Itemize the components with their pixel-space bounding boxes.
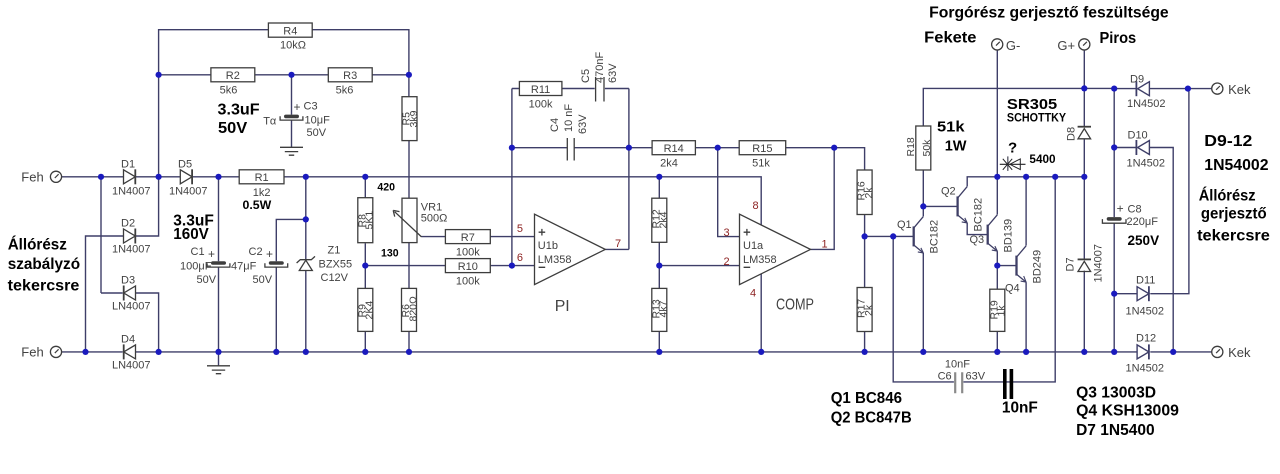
svg-text:Fekete: Fekete (924, 30, 976, 47)
wire R14 to pin3 (718, 148, 740, 237)
svg-text:Feh: Feh (21, 170, 43, 185)
svg-text:420: 420 (377, 182, 395, 194)
svg-text:SR305: SR305 (1007, 96, 1057, 113)
node R8 top (362, 174, 368, 180)
svg-text:1k: 1k (996, 305, 1008, 317)
svg-text:2k4: 2k4 (660, 158, 678, 170)
capacitor C2 electrolytic (231, 246, 288, 286)
svg-text:gerjesztő: gerjesztő (1201, 206, 1267, 223)
svg-text:BD139: BD139 (1003, 219, 1015, 253)
svg-text:LN4007: LN4007 (112, 301, 151, 313)
transistor Q2 (941, 186, 985, 232)
resistor R17 vertical (856, 288, 875, 332)
svg-text:5k6: 5k6 (336, 85, 354, 97)
wire R8 R9 column (364, 177, 366, 352)
svg-text:C5: C5 (580, 69, 592, 83)
transistor Q4 (1005, 246, 1044, 295)
svg-text:10nF: 10nF (1002, 399, 1038, 416)
wire U1b output (605, 248, 629, 250)
node D11 left/C8 bottom (1111, 291, 1117, 297)
svg-text:5400: 5400 (1029, 154, 1055, 166)
svg-text:+: + (208, 247, 215, 261)
svg-text:50V: 50V (197, 274, 217, 286)
wire Q4 collector (1025, 177, 1027, 246)
svg-text:1N4007: 1N4007 (1093, 244, 1105, 283)
svg-text:Q1 BC846: Q1 BC846 (831, 390, 902, 407)
resistor R10 (445, 259, 490, 288)
resistor R19 vertical (988, 289, 1007, 331)
svg-text:D7 1N5400: D7 1N5400 (1076, 422, 1155, 439)
svg-text:+: + (266, 247, 273, 261)
svg-text:C2: C2 (249, 246, 263, 258)
svg-text:D12: D12 (1136, 333, 1156, 345)
svg-text:PI: PI (555, 298, 570, 315)
svg-text:C12V: C12V (321, 272, 349, 284)
svg-text:Feh: Feh (21, 345, 43, 360)
svg-text:Q3: Q3 (970, 234, 985, 246)
wire Q1 collector to Q2 base (923, 205, 957, 207)
node R5 top (406, 72, 412, 78)
wire R2 R3 rail (159, 74, 409, 76)
wire Q3 emitter to Q4 base and R19 (997, 251, 1016, 352)
svg-text:BC182: BC182 (973, 198, 985, 232)
resistor R18 vertical (905, 126, 933, 170)
svg-text:63V: 63V (607, 63, 619, 83)
capacitor C6 (938, 359, 986, 394)
wire R10 to pin6 (490, 265, 534, 267)
wire feedback right vertical to output (628, 89, 630, 250)
wire C2 riser (276, 219, 306, 352)
svg-text:Q4: Q4 (1005, 283, 1020, 295)
wire VR1 wiper to R7 (422, 236, 446, 238)
svg-text:Piros: Piros (1100, 30, 1137, 47)
svg-text:51k: 51k (752, 158, 770, 170)
svg-text:tekercsre: tekercsre (8, 278, 80, 295)
wire D2 branch (86, 177, 159, 352)
node R1 right/Z1 (303, 174, 309, 180)
wire node-130 row (365, 265, 445, 267)
svg-text:Forgórész gerjesztő feszültség: Forgórész gerjesztő feszültsége (929, 4, 1169, 21)
node rail Z1 (303, 349, 309, 355)
svg-text:LM358: LM358 (538, 254, 572, 266)
svg-text:1N4502: 1N4502 (1127, 158, 1166, 170)
svg-text:COMP: COMP (776, 296, 814, 313)
svg-text:820Ω: 820Ω (407, 296, 419, 322)
svg-text:4: 4 (750, 287, 756, 299)
svg-text:R7: R7 (461, 232, 475, 244)
capacitor C4 (549, 104, 589, 161)
diode D11 (1126, 275, 1165, 318)
node G-/Q3 collector (994, 174, 1000, 180)
svg-text:D11: D11 (1136, 275, 1155, 287)
diode D2 (112, 218, 151, 256)
node D10 left (1111, 144, 1117, 150)
svg-text:2K4: 2K4 (364, 301, 376, 320)
resistor R15 (739, 141, 786, 170)
svg-text:51k: 51k (937, 118, 965, 135)
trimpot VR1 (393, 198, 447, 242)
annotation big 10nF capacitor (1002, 369, 1038, 416)
svg-text:C3: C3 (304, 101, 318, 113)
svg-text:D4: D4 (121, 334, 135, 346)
resistor R14 (652, 141, 695, 170)
node R12 top (656, 174, 662, 180)
node 130 R8/R9 (362, 263, 368, 269)
terminal G+ (1079, 39, 1090, 50)
svg-text:C4: C4 (549, 118, 561, 132)
terminal Feh bottom (50, 346, 61, 357)
svg-text:3: 3 (724, 227, 730, 239)
svg-text:D9-12: D9-12 (1204, 133, 1252, 150)
resistor R6 vertical (400, 288, 419, 331)
wire R16 R17 column and Q1 base row (865, 215, 914, 352)
svg-text:R4: R4 (283, 26, 297, 38)
wire D11 row (1114, 89, 1189, 294)
svg-text:Állórész: Állórész (1199, 185, 1256, 204)
node C6 right rail (1052, 174, 1058, 180)
svg-text:100k: 100k (456, 247, 480, 259)
svg-text:100k: 100k (456, 276, 480, 288)
svg-text:D5: D5 (178, 159, 192, 171)
svg-text:tekercsre: tekercsre (1197, 227, 1270, 244)
svg-text:2k: 2k (863, 187, 875, 199)
zener Z1 (297, 245, 353, 285)
node rail D3 (156, 349, 162, 355)
wire Q2 collector and right +rail y177 (967, 177, 1084, 187)
svg-text:+: + (1117, 202, 1124, 216)
diode D8 vertical (1066, 127, 1092, 141)
wire D3 branch (101, 293, 159, 352)
svg-text:470nF: 470nF (594, 52, 606, 83)
wire Q3 collector (996, 177, 998, 215)
wire C3 riser (291, 75, 293, 148)
svg-text:D1: D1 (121, 159, 135, 171)
svg-text:R14: R14 (664, 143, 684, 155)
node C4 left (509, 145, 515, 151)
capacitor C3 electrolytic (263, 100, 330, 139)
svg-text:2: 2 (724, 256, 730, 268)
svg-text:1N4007: 1N4007 (112, 186, 151, 198)
svg-text:Tα: Tα (263, 116, 277, 128)
svg-text:LM358: LM358 (743, 254, 777, 266)
svg-text:C6: C6 (938, 371, 952, 383)
svg-text:500Ω: 500Ω (421, 213, 448, 225)
node R2 rail left (156, 72, 162, 78)
wire bottom ground rail (61, 351, 1212, 353)
svg-text:50V: 50V (307, 127, 327, 139)
svg-text:Q3 13003D: Q3 13003D (1076, 384, 1156, 401)
node D1-D5 (156, 174, 162, 180)
node rail C2 (273, 349, 279, 355)
ground on bottom rail (207, 366, 230, 374)
node D5-R1/C1 (215, 174, 221, 180)
svg-text:Kek: Kek (1228, 345, 1251, 360)
wire G- column (996, 50, 998, 177)
wire Q2 emitter to Q3 base (967, 223, 988, 235)
svg-text:2k: 2k (863, 304, 875, 316)
resistor R3 (328, 68, 372, 97)
node pin6 (509, 263, 515, 269)
diode D9 (1127, 74, 1166, 111)
svg-text:100k: 100k (529, 99, 553, 111)
svg-text:D2: D2 (121, 218, 135, 230)
svg-text:BZX55: BZX55 (319, 259, 353, 271)
svg-text:1: 1 (822, 239, 828, 251)
svg-text:Q2 BC847B: Q2 BC847B (831, 410, 912, 427)
wire ground stub below rail (218, 352, 220, 366)
wire Q4 emitter (1025, 282, 1027, 352)
resistor R8 vertical (356, 198, 375, 243)
node R14-R15/pin3 (715, 145, 721, 151)
wire Q1 emitter to ground rail (922, 253, 924, 352)
svg-text:50V: 50V (253, 274, 273, 286)
wire Z1 riser (305, 177, 307, 352)
node rail R6 (406, 349, 412, 355)
svg-text:6: 6 (517, 252, 523, 264)
diode D3 (112, 275, 151, 313)
node rail R19 (994, 349, 1000, 355)
svg-text:?: ? (1008, 139, 1017, 156)
resistor R13 vertical (650, 288, 669, 331)
ground under C3 (280, 147, 303, 155)
svg-text:47μF: 47μF (231, 261, 257, 273)
svg-text:10kΩ: 10kΩ (280, 40, 306, 52)
svg-text:D9: D9 (1130, 74, 1144, 86)
resistor R1 (239, 170, 284, 199)
terminal G- (992, 39, 1003, 50)
svg-text:1W: 1W (945, 137, 968, 154)
transistor Q1 (897, 217, 941, 254)
svg-text:G+: G+ (1057, 38, 1075, 53)
node C3 tap (288, 72, 294, 78)
svg-text:100μF: 100μF (180, 261, 212, 273)
svg-text:5: 5 (517, 223, 523, 235)
svg-text:C1: C1 (191, 246, 205, 258)
wire C1 riser (218, 177, 220, 352)
node D9 left/C8 top (1111, 86, 1117, 92)
wire C6 loop (893, 177, 1055, 382)
diode D10 (1127, 130, 1166, 170)
diode D4 (112, 334, 151, 372)
wire D10 row (1114, 148, 1173, 352)
terminal Feh top (50, 171, 61, 182)
svg-text:8: 8 (753, 200, 759, 212)
svg-text:R3: R3 (343, 70, 357, 82)
node R12-R13/pin2 (656, 263, 662, 269)
svg-text:10nF: 10nF (945, 359, 970, 371)
node rail R13 (656, 349, 662, 355)
wire D9 row to Kek (1114, 88, 1212, 90)
node C2 top (303, 216, 309, 222)
svg-text:D7: D7 (1065, 257, 1077, 271)
svg-text:4k7: 4k7 (658, 300, 670, 317)
resistor R2 (211, 68, 255, 97)
node D9 right/Kek-top (1185, 86, 1191, 92)
wire G+ column with D8 D7 (1083, 50, 1085, 352)
svg-text:220μF: 220μF (1127, 216, 1159, 228)
svg-text:Q4 KSH13009: Q4 KSH13009 (1076, 403, 1179, 420)
svg-text:R10: R10 (458, 261, 478, 273)
wire R4 top loop left (159, 30, 269, 75)
svg-text:Kek: Kek (1228, 82, 1251, 97)
svg-text:10 nF: 10 nF (563, 104, 575, 132)
transistor Q3 (970, 215, 1015, 253)
svg-text:1N4502: 1N4502 (1127, 98, 1166, 110)
svg-text:Q1: Q1 (897, 219, 912, 231)
svg-text:3k9: 3k9 (408, 110, 420, 127)
node Feh-top/D1 (98, 174, 104, 180)
svg-text:+: + (294, 100, 301, 114)
capacitor C8 electrolytic (1102, 202, 1158, 229)
svg-text:C8: C8 (1128, 204, 1142, 216)
svg-text:G-: G- (1006, 38, 1020, 53)
svg-text:LN4007: LN4007 (112, 360, 151, 372)
svg-text:10μF: 10μF (305, 115, 331, 127)
wire C8 D11 column (1113, 89, 1115, 352)
node C4 right/R14 (626, 145, 632, 151)
wire R4 top loop right (312, 30, 409, 75)
svg-text:D10: D10 (1128, 130, 1148, 142)
resistor R5 vertical (401, 97, 420, 141)
node Q1 base/C6 (890, 233, 896, 239)
svg-text:Állórész: Állórész (8, 235, 67, 254)
wire U1a output to R15 (811, 148, 835, 250)
wire feedback top loop R11 C5 (512, 88, 629, 90)
annotation diode 5400 (1000, 156, 1026, 171)
node rail C1/gnd (215, 349, 221, 355)
terminal Kek bottom (1212, 346, 1223, 357)
node rail D7 (1081, 349, 1087, 355)
svg-text:1N54002: 1N54002 (1204, 157, 1268, 174)
capacitor C1 electrolytic (180, 246, 230, 286)
terminal Kek top (1212, 83, 1223, 94)
svg-text:50k: 50k (921, 139, 933, 157)
node Q3 emitter/Q4 base (994, 263, 1000, 269)
svg-text:R2: R2 (226, 70, 240, 82)
diode D1 (112, 159, 151, 198)
capacitor C5 (580, 52, 619, 102)
svg-text:63V: 63V (966, 371, 986, 383)
wire feedback left vertical to pin6 (511, 89, 513, 266)
node Q4 collector rail (1023, 174, 1029, 180)
node rail Q4e (1023, 349, 1029, 355)
svg-text:R11: R11 (531, 84, 550, 96)
node rail C8/D12 (1111, 349, 1117, 355)
svg-text:1N4007: 1N4007 (112, 244, 151, 256)
wire R5 VR1 R6 column (408, 75, 410, 352)
svg-text:U1b: U1b (538, 240, 558, 252)
wire R14 R15 row (629, 148, 865, 170)
diode D5 (169, 159, 208, 198)
wire Feh-top to D3 vertical x101 (100, 177, 102, 293)
junction dots group (82, 72, 1191, 355)
svg-text:BC182: BC182 (929, 220, 941, 254)
svg-text:50V: 50V (218, 120, 248, 137)
svg-text:szabályzó: szabályzó (8, 256, 81, 273)
node rail Q1e (920, 349, 926, 355)
svg-text:D8: D8 (1066, 127, 1078, 141)
resistor R7 (445, 230, 490, 259)
resistor R16 vertical (856, 170, 875, 215)
node rail end/D8-D7 (1081, 174, 1087, 180)
op-amp U1a (740, 214, 811, 284)
svg-text:U1a: U1a (743, 240, 764, 252)
svg-text:1N4502: 1N4502 (1126, 363, 1165, 375)
svg-text:R18: R18 (905, 137, 917, 156)
svg-text:1N4007: 1N4007 (169, 186, 208, 198)
node rail R17 (862, 349, 868, 355)
wire U1a pin4 to ground rail (760, 274, 762, 352)
svg-text:SCHOTTKY: SCHOTTKY (1007, 113, 1067, 125)
node R16-R17 (862, 233, 868, 239)
svg-text:5K1: 5K1 (364, 211, 376, 230)
op-amp U1b (535, 214, 606, 284)
node rail D2 (82, 349, 88, 355)
node rail D10/D12 (1170, 349, 1176, 355)
node G+ rail (1081, 85, 1087, 91)
svg-text:D3: D3 (121, 275, 135, 287)
svg-text:R15: R15 (752, 143, 772, 155)
svg-text:130: 130 (381, 248, 399, 260)
svg-text:1N4502: 1N4502 (1126, 306, 1165, 318)
svg-text:63V: 63V (577, 114, 589, 134)
svg-text:3.3uF: 3.3uF (218, 102, 260, 119)
wire main +V rail y177 (61, 177, 761, 225)
svg-text:R1: R1 (255, 172, 269, 184)
svg-text:Q2: Q2 (941, 186, 956, 198)
svg-text:250V: 250V (1128, 233, 1160, 248)
svg-text:5k6: 5k6 (220, 85, 238, 97)
node rail pin4 (758, 349, 764, 355)
svg-text:7: 7 (615, 238, 621, 250)
resistor R12 vertical (650, 198, 669, 242)
resistor R4 (268, 23, 312, 52)
wire Q1 collector and R18 column and +G rail y88 (923, 88, 1114, 216)
node rail R9 (362, 349, 368, 355)
svg-text:BD249: BD249 (1032, 250, 1044, 284)
svg-text:160V: 160V (173, 226, 209, 243)
wire feedback C4 row (512, 147, 629, 149)
resistor R9 vertical (356, 288, 375, 331)
resistor R11 (519, 82, 562, 111)
node R15 right/pin1 (831, 145, 837, 151)
wire left vertical x158 (158, 75, 160, 177)
svg-text:0.5W: 0.5W (243, 198, 272, 212)
svg-text:2k4: 2k4 (658, 211, 670, 228)
diode D7 vertical (1065, 244, 1105, 283)
wire R12 column and pin2 row (659, 177, 739, 352)
diode D12 (1126, 333, 1165, 375)
svg-text:Z1: Z1 (328, 245, 341, 257)
node Q1 collector/R18 (920, 203, 926, 209)
wire R7 to pin5 (490, 236, 534, 238)
